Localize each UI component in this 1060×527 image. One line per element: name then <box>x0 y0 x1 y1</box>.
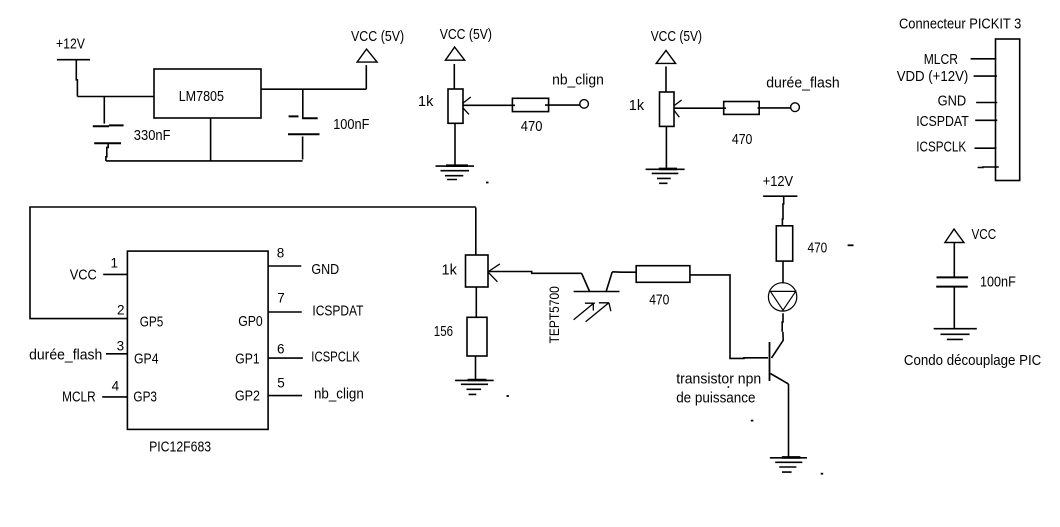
svg-text:Connecteur PICKIT 3: Connecteur PICKIT 3 <box>899 17 1021 33</box>
wire +12V to resistor R8 <box>782 196 783 226</box>
capacitor 100nF bottom plate <box>288 133 320 135</box>
stray dot <box>751 420 754 422</box>
wire GP5 feedback loop <box>30 207 476 319</box>
pin 3 stub <box>106 353 127 355</box>
wire feedback to pot 3 <box>475 208 477 256</box>
resistor R6 156 body <box>467 317 487 356</box>
wire emitter to ground <box>788 384 790 458</box>
resistor R4 470 body <box>724 102 760 115</box>
stray dash <box>848 244 854 246</box>
wire pot 1 to ground <box>454 123 456 166</box>
connector J1 pin 6 stub <box>978 166 999 169</box>
svg-text:100nF: 100nF <box>980 275 1016 291</box>
ground decoupling <box>934 329 977 340</box>
wire VCC to pot 1 <box>453 64 455 89</box>
phototransistor Q1 right lead <box>606 272 612 291</box>
stray dot <box>507 395 510 397</box>
svg-text:7: 7 <box>277 291 285 306</box>
svg-text:100nF: 100nF <box>333 117 369 133</box>
IC U1 PIC12F683 body <box>127 251 268 429</box>
wire pot 3 to resistor R6 <box>475 287 477 317</box>
ground pot 1 <box>436 166 475 179</box>
phototransistor Q1 light arrow 2 <box>586 303 611 322</box>
svg-text:ICSPDAT: ICSPDAT <box>312 304 363 320</box>
ground emitter <box>770 458 807 472</box>
stray dot <box>486 182 489 184</box>
svg-text:5: 5 <box>277 376 285 391</box>
connector J1 pin ICSPCLK stub <box>975 147 997 149</box>
wire wiper to resistor R2 <box>462 104 515 106</box>
pin 6 stub <box>268 357 303 359</box>
wire regulator gnd pin <box>210 118 212 161</box>
pin 8 stub <box>268 265 301 267</box>
phototransistor Q1 light arrow 1 <box>574 303 595 320</box>
svg-text:ICSPDAT: ICSPDAT <box>916 114 969 130</box>
wire wiper to phototransistor <box>488 272 581 274</box>
svg-text:transistor npn: transistor npn <box>676 371 761 387</box>
wire resistor R8 to LED <box>782 261 784 283</box>
transistor Q2 emitter lead <box>770 374 788 385</box>
node duree_flash terminal circle <box>791 103 800 112</box>
wire capacitor C3 to ground <box>953 287 955 329</box>
regulator LM7805 box <box>154 69 261 118</box>
pin 4 stub <box>102 396 127 398</box>
svg-text:ICSPCLK: ICSPCLK <box>916 140 966 156</box>
ground divider <box>455 380 494 394</box>
svg-text:durée_flash: durée_flash <box>29 348 102 364</box>
svg-text:de puissance: de puissance <box>676 390 755 406</box>
svg-text:3: 3 <box>117 338 125 353</box>
svg-text:nb_clign: nb_clign <box>552 72 604 88</box>
phototransistor Q1 TEPT5700 left lead <box>582 273 590 291</box>
connector J1 pin MLCR stub <box>971 58 997 60</box>
power VCC (5V) symbol at regulator output <box>357 49 377 62</box>
capacitor C3 100nF top plate <box>937 276 969 278</box>
svg-text:+12V: +12V <box>56 37 85 53</box>
potentiometer R1 wiper arrow <box>462 97 471 114</box>
phototransistor Q1 base bar <box>574 291 620 293</box>
pin 1 stub <box>103 273 127 275</box>
svg-text:4: 4 <box>112 378 120 393</box>
wire VCC to pot 2 <box>665 67 667 93</box>
pin 5 stub <box>268 395 302 397</box>
resistor R7 470 body <box>636 266 690 283</box>
svg-text:MCLR: MCLR <box>62 390 96 406</box>
wire pot 2 to ground <box>665 126 667 169</box>
svg-text:GP1: GP1 <box>235 352 259 368</box>
stray dot <box>821 473 824 475</box>
svg-text:470: 470 <box>808 240 828 256</box>
svg-text:GND: GND <box>938 93 967 109</box>
wire resistor R7 to base <box>690 275 768 359</box>
svg-text:330nF: 330nF <box>134 128 171 144</box>
wire resistor R2 to terminal <box>545 104 580 106</box>
svg-text:VCC: VCC <box>972 227 997 243</box>
resistor R8 470 body <box>776 226 792 261</box>
svg-text:VCC (5V): VCC (5V) <box>440 27 492 43</box>
wire +12V to regulator input <box>77 96 154 98</box>
svg-text:GND: GND <box>311 262 339 278</box>
capacitor 100nF top plate <box>289 116 318 118</box>
potentiometer R5 1k body <box>466 255 489 287</box>
svg-text:VCC (5V): VCC (5V) <box>651 29 702 45</box>
svg-text:470: 470 <box>649 293 669 309</box>
wire resistor R6 to ground <box>475 356 477 380</box>
power VCC symbol decoupling <box>945 229 964 242</box>
capacitor C3 100nF bottom plate <box>936 286 968 288</box>
wire regulator output <box>261 88 366 90</box>
svg-text:1k: 1k <box>629 98 645 114</box>
svg-text:ICSPCLK: ICSPCLK <box>311 349 360 365</box>
svg-text:2: 2 <box>117 303 125 318</box>
wire wiper to resistor R4 <box>674 107 726 109</box>
connector J1 pin ICSPDAT stub <box>975 119 997 121</box>
potentiometer R5 wiper arrow <box>489 264 500 282</box>
potentiometer R3 wiper arrow <box>674 100 682 117</box>
svg-text:MLCR: MLCR <box>924 52 958 68</box>
svg-text:1k: 1k <box>442 263 458 279</box>
capacitor 330nF top plate <box>93 124 124 127</box>
connector J1 pin VDD stub <box>974 75 997 77</box>
svg-text:470: 470 <box>521 119 543 135</box>
ground pot 2 <box>646 169 685 183</box>
wire LED to collector <box>781 313 784 332</box>
resistor R2 470 body <box>512 98 548 111</box>
svg-text:Condo découplage PIC: Condo découplage PIC <box>904 353 1041 369</box>
capacitor 330nF bottom plate <box>94 142 121 144</box>
wire +12V down <box>76 60 77 97</box>
svg-text:GP3: GP3 <box>133 390 157 406</box>
svg-text:VCC: VCC <box>70 268 97 284</box>
potentiometer R3 1k body <box>660 92 675 126</box>
connector J1 pin GND stub <box>976 102 997 104</box>
svg-text:+12V: +12V <box>763 174 794 190</box>
svg-text:8: 8 <box>277 246 285 261</box>
pin 7 stub <box>268 311 302 313</box>
svg-text:GP5: GP5 <box>140 314 164 330</box>
wire output cap drop <box>302 89 304 119</box>
svg-text:nb_clign: nb_clign <box>314 386 364 402</box>
wire 330nF to ground rail <box>106 143 108 161</box>
LED D1 triangle <box>770 291 795 310</box>
transistor Q2 collector lead <box>772 332 784 358</box>
svg-text:VCC (5V): VCC (5V) <box>351 29 404 45</box>
svg-text:PIC12F683: PIC12F683 <box>149 440 211 456</box>
svg-text:durée_flash: durée_flash <box>766 76 840 92</box>
transistor Q2 base bar <box>769 342 771 381</box>
svg-text:1: 1 <box>111 256 119 271</box>
LED D1 circle <box>768 283 796 311</box>
stray dot <box>728 386 730 388</box>
svg-text:470: 470 <box>732 132 753 148</box>
potentiometer R1 1k body <box>448 89 463 123</box>
node nb_clign terminal circle <box>580 100 589 109</box>
wire 100nF to ground rail <box>302 137 304 160</box>
power VCC (5V) symbol pot 1 <box>445 47 464 60</box>
svg-text:GP0: GP0 <box>238 314 263 330</box>
svg-text:VDD (+12V): VDD (+12V) <box>897 69 969 85</box>
wire VCC symbol to output <box>365 65 367 89</box>
node +12V collector rail bar <box>763 195 797 197</box>
svg-text:GP2: GP2 <box>235 389 260 405</box>
wire resistor R4 to terminal <box>758 107 791 109</box>
svg-text:156: 156 <box>434 324 453 340</box>
wire ground rail <box>106 160 303 162</box>
svg-text:6: 6 <box>277 342 285 357</box>
svg-text:GP4: GP4 <box>134 352 159 368</box>
power VCC (5V) symbol pot 2 <box>656 50 675 63</box>
wire VCC to capacitor C3 <box>953 243 955 278</box>
wire phototransistor to resistor R7 <box>612 271 636 273</box>
svg-text:1k: 1k <box>418 94 434 110</box>
node +12V rail bar <box>57 59 90 61</box>
connector J1 body <box>996 39 1020 181</box>
wire input cap drop <box>103 97 105 124</box>
svg-text:TEPT5700: TEPT5700 <box>546 286 562 343</box>
svg-text:LM7805: LM7805 <box>179 89 224 105</box>
